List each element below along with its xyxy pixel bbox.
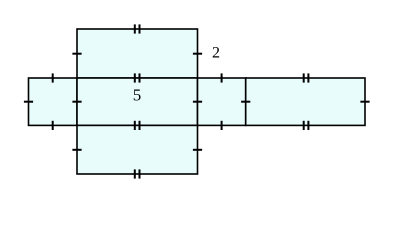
double tick: bottom edge of right long rectangle [304,121,309,130]
double tick: bottom edge of bottom rectangle [135,169,140,178]
double tick: top edge of right long rectangle [304,73,309,82]
face: right small rectangle (2x2) [198,78,246,125]
single tick: right edge of bottom rectangle [193,149,202,151]
single tick: right edge of right long rectangle [360,101,369,103]
face: right long rectangle (5x2) [246,78,365,125]
face: left small rectangle (2x2) [29,78,78,125]
double tick: shared edge center/bottom rectangle [135,121,140,130]
label 5 (center rectangle width) [133,86,142,105]
single tick: top edge of left small rectangle [52,73,54,82]
svg-text:5: 5 [133,86,142,105]
face: top rectangle (5x2) [77,29,198,78]
single tick: shared edge center/right small rectangle [193,101,202,103]
single tick: shared edge right small/right long rectangle [241,101,250,103]
svg-text:2: 2 [212,45,220,62]
single tick: top edge of right small rectangle [221,73,223,82]
double tick: shared edge top/center rectangle [135,73,140,82]
single tick: left edge of left small rectangle [24,101,33,103]
face: bottom rectangle (5x2) [77,125,198,174]
double tick: top edge of top rectangle [135,24,140,33]
single tick: shared edge left small/center rectangle [72,101,81,103]
label 2 (top rectangle right edge) [212,45,220,62]
single tick: bottom edge of right small rectangle [221,121,223,130]
single tick: right edge of top rectangle [193,53,202,55]
single tick: left edge of top rectangle [72,53,81,55]
single tick: bottom edge of left small rectangle [52,121,54,130]
single tick: left edge of bottom rectangle [72,149,81,151]
face: center rectangle (5x2) [77,78,198,125]
